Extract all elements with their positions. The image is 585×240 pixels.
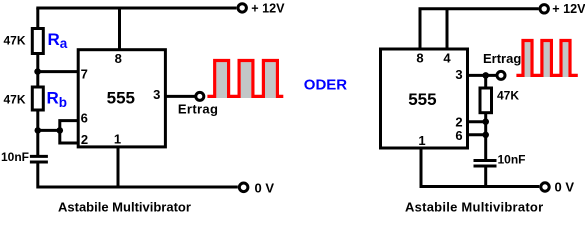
svg-text:47K: 47K (4, 33, 26, 47)
wire node C down to pin 2 (60, 130, 78, 143)
wire pin 4 to rail (right) (446, 9, 449, 49)
svg-text:10nF: 10nF (498, 153, 526, 167)
wire node B to node C (38, 129, 60, 132)
wire node D to resistor top (right) (484, 75, 487, 88)
svg-text:Astabile Multivibrator: Astabile Multivibrator (405, 199, 543, 214)
svg-text:7: 7 (81, 66, 88, 81)
svg-text:47K: 47K (4, 93, 26, 107)
svg-text:10nF: 10nF (1, 150, 29, 164)
svg-text:ODER: ODER (304, 76, 348, 93)
wire pin 2 stub (right) (468, 120, 486, 123)
wire pin 3 output (right) (468, 74, 497, 77)
wire node A to pin 7 (38, 70, 79, 73)
svg-text:Ertrag: Ertrag (178, 101, 218, 116)
wire pin 6 stub (right) (468, 133, 486, 136)
wire from rail down to resistor Ra (36, 8, 39, 28)
capacitor C2 10nF bottom plate (right) (474, 165, 497, 168)
terminal Ertrag output (left) (196, 92, 204, 100)
svg-text:0 V: 0 V (555, 180, 575, 195)
terminal +12V (right) (540, 5, 548, 13)
svg-text:6: 6 (455, 128, 462, 143)
node E junction dot (pin 2) (482, 118, 489, 125)
resistor Rb (47K) (32, 87, 43, 110)
svg-text:+ 12V: + 12V (251, 1, 285, 15)
svg-text:47K: 47K (497, 88, 519, 102)
op-amp/timer U1 555 body (left) (78, 50, 165, 147)
capacitor C1 10nF top plate (30, 155, 48, 158)
node B junction dot (Rb/cap/pin2-6 wire) (35, 127, 42, 134)
wire capacitor to 0V rail and 0V rail (left) (38, 163, 238, 187)
wire +12V rail (right circuit) (419, 7, 539, 10)
svg-text:3: 3 (153, 87, 160, 102)
node C junction dot (pins 6 and 2 tie) (57, 127, 64, 134)
waveform output pulses gray fill (left) (216, 62, 227, 98)
svg-text:Ertrag: Ertrag (483, 51, 521, 66)
terminal 0V (right) (541, 183, 549, 191)
node F junction dot (pin 6) (482, 132, 489, 139)
svg-text:8: 8 (416, 50, 423, 65)
svg-text:0 V: 0 V (255, 180, 275, 195)
svg-text:4: 4 (443, 50, 451, 65)
waveform output square wave trace (left, red) (207, 61, 283, 97)
wire Rb bottom through node B down to capacitor (36, 112, 39, 156)
wire resistor bottom through pin nodes to capacitor (right) (484, 113, 487, 160)
svg-text:2: 2 (81, 132, 88, 147)
waveform output pulses gray fill (right) (525, 42, 531, 77)
resistor Ra (47K) (32, 29, 43, 54)
node D junction dot (pin3/resistor) (482, 72, 489, 79)
svg-text:555: 555 (107, 88, 135, 107)
terminal +12V (left) (238, 4, 246, 12)
svg-text:1: 1 (418, 133, 425, 148)
svg-text:555: 555 (408, 90, 436, 109)
wire pin 8 drop from rail to 555 top (left) (118, 8, 121, 50)
svg-text:1: 1 (114, 132, 121, 147)
wire pin 1 to 0V rail (left) (117, 147, 120, 187)
resistor R1 47K (right) (480, 88, 492, 113)
capacitor C2 10nF top plate (right) (474, 159, 497, 162)
wire pin 8 to rail (right) (419, 9, 422, 49)
op-amp/timer U2 555 body (right) (381, 49, 468, 148)
svg-text:+ 12V: + 12V (552, 2, 585, 16)
wire capacitor to 0V rail (right) (484, 166, 487, 187)
wire Ra bottom to node A (36, 55, 39, 86)
terminal 0V (left) (239, 183, 248, 192)
terminal Ertrag output (right) (497, 71, 505, 79)
svg-text:3: 3 (455, 67, 462, 82)
capacitor C1 10nF bottom plate (30, 161, 48, 164)
wire pin 3 output (left) (165, 95, 194, 98)
svg-text:6: 6 (81, 110, 88, 125)
svg-text:8: 8 (115, 51, 122, 66)
wire node C up to pin 6 (60, 121, 78, 131)
waveform output square wave trace (right, red) (516, 41, 577, 76)
wire +12V rail (left circuit) (36, 7, 236, 10)
wire pin 1 down and 0V rail (right) (421, 148, 539, 187)
node A junction dot (Ra/Rb/pin7) (34, 68, 41, 75)
svg-text:Astabile Multivibrator: Astabile Multivibrator (58, 199, 191, 214)
